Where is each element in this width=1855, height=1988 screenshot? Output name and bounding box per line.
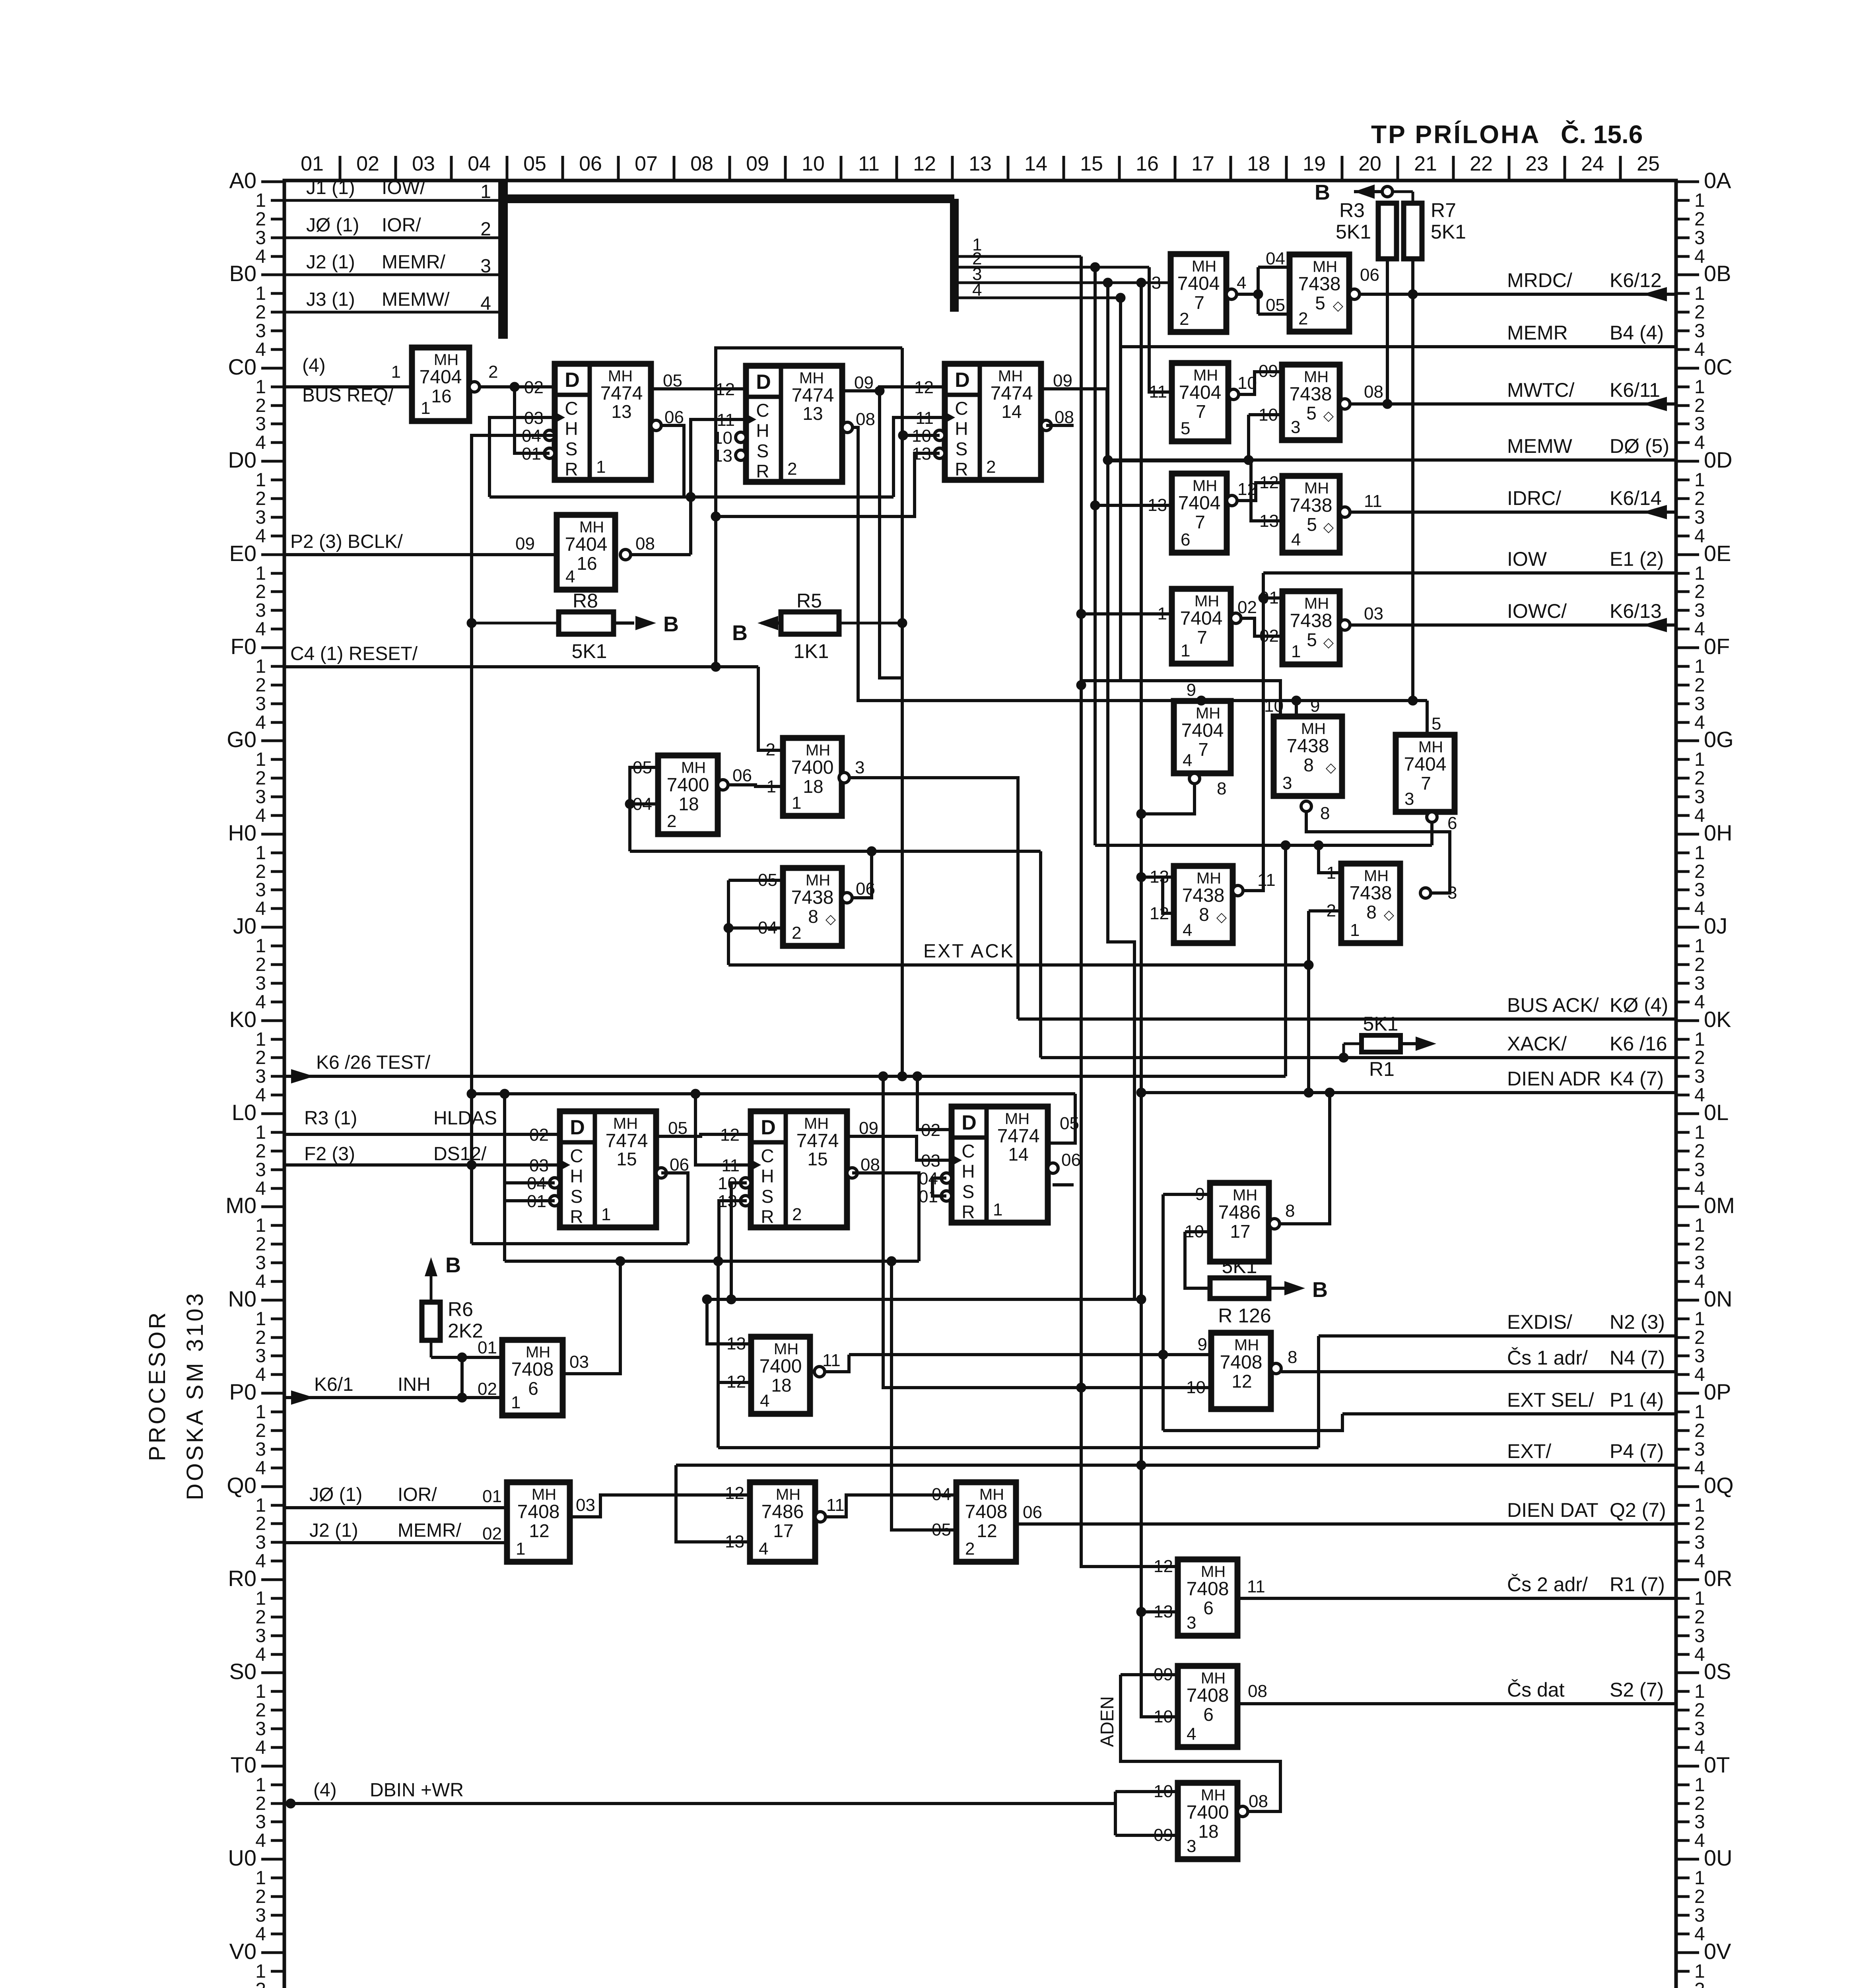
svg-text:17: 17 xyxy=(1191,152,1214,175)
svg-text:7: 7 xyxy=(1195,512,1205,532)
wire MWTC line xyxy=(1345,402,1676,406)
wire G22 pin12 stub xyxy=(718,1381,751,1384)
resistor R1 5K1 xyxy=(1344,1013,1436,1080)
junction at 3021,1762 xyxy=(1197,696,1206,705)
svg-text:18: 18 xyxy=(1198,1821,1218,1842)
svg-text:3: 3 xyxy=(255,414,266,435)
svg-text:1: 1 xyxy=(1694,470,1705,491)
svg-text:1: 1 xyxy=(1694,377,1705,398)
svg-text:02: 02 xyxy=(478,1379,497,1399)
svg-text:K0: K0 xyxy=(229,1007,257,1032)
svg-text:D: D xyxy=(756,371,771,394)
svg-text:N0: N0 xyxy=(228,1286,256,1311)
wire DS12 xyxy=(284,1163,560,1167)
svg-text:2: 2 xyxy=(766,740,775,759)
svg-text:05: 05 xyxy=(633,758,652,777)
wire H-row link xyxy=(1095,844,1432,847)
junction at 2870,711 xyxy=(1136,278,1146,287)
wire FF5 C feed xyxy=(695,1094,751,1165)
svg-text:7404: 7404 xyxy=(1180,608,1223,629)
svg-text:XACK/: XACK/ xyxy=(1507,1033,1567,1055)
wire MEMR line xyxy=(1121,345,1676,348)
junction at 2870,3685 xyxy=(1136,1460,1146,1470)
wire INH line xyxy=(284,1396,502,1399)
svg-text:3: 3 xyxy=(1404,789,1414,809)
output bubble at 3285,2028 xyxy=(1301,801,1311,812)
wire R3 lead xyxy=(1386,259,1389,404)
gate MH7438-5/2 xyxy=(1290,254,1349,332)
svg-text:15: 15 xyxy=(1080,152,1103,175)
svg-text:4: 4 xyxy=(1694,1085,1705,1106)
svg-text:18: 18 xyxy=(678,794,699,814)
svg-text:3: 3 xyxy=(480,256,491,277)
svg-text:◇: ◇ xyxy=(1216,910,1227,925)
svg-text:3: 3 xyxy=(1694,1159,1705,1180)
wire FF1 Q to FF2 D xyxy=(651,387,746,390)
svg-text:18: 18 xyxy=(1247,152,1270,175)
wire G6 out to G7 in xyxy=(1231,293,1258,296)
wire G8 out jog xyxy=(1233,372,1282,394)
wire G23 out jog xyxy=(570,1495,750,1517)
svg-text:2: 2 xyxy=(255,1979,266,1988)
wire G4 pin2 feed xyxy=(758,667,783,750)
svg-text:MH: MH xyxy=(1192,258,1216,275)
svg-text:20: 20 xyxy=(1358,152,1381,175)
svg-text:A0: A0 xyxy=(229,168,257,193)
svg-text:MH: MH xyxy=(1418,738,1443,756)
junction at 2221,2707 xyxy=(878,1072,888,1081)
svg-text:J2 (1): J2 (1) xyxy=(309,1520,358,1541)
junction at 2271,1095 xyxy=(898,431,908,440)
wire L-row top link xyxy=(472,1092,1075,1095)
svg-text:1: 1 xyxy=(596,457,606,477)
junction at 1186,1567 xyxy=(467,618,476,628)
svg-text:10: 10 xyxy=(1237,373,1257,393)
svg-text:R: R xyxy=(570,1206,583,1227)
svg-text:◇: ◇ xyxy=(1323,520,1334,535)
svg-text:◇: ◇ xyxy=(1323,408,1334,423)
svg-text:MH: MH xyxy=(799,369,824,387)
svg-text:03: 03 xyxy=(576,1495,595,1515)
svg-text:D: D xyxy=(761,1116,776,1139)
svg-text:4: 4 xyxy=(1694,1458,1705,1479)
svg-text:MH: MH xyxy=(1201,1670,1226,1687)
svg-text:4: 4 xyxy=(1694,432,1705,453)
svg-text:2: 2 xyxy=(792,923,801,943)
svg-text:MH: MH xyxy=(1313,258,1337,276)
junction at 3489,1016 xyxy=(1383,399,1392,409)
svg-text:M0: M0 xyxy=(225,1193,256,1218)
svg-text:5K1: 5K1 xyxy=(1431,221,1466,243)
svg-text:7400: 7400 xyxy=(667,775,709,796)
svg-text:MH: MH xyxy=(526,1343,550,1361)
wire EXT SEL jog xyxy=(1163,1414,1342,1431)
svg-text:3: 3 xyxy=(1694,1345,1705,1367)
svg-text:1: 1 xyxy=(421,398,430,418)
output bubble at 2123,1956 xyxy=(839,773,849,783)
wire G27-G28 link xyxy=(1121,1675,1280,1811)
svg-text:P0: P0 xyxy=(229,1379,257,1404)
junction at 1778,3268 xyxy=(702,1295,712,1304)
svg-text:1: 1 xyxy=(255,190,266,211)
junction at 1749,2751 xyxy=(691,1089,700,1099)
svg-text:HLDAS: HLDAS xyxy=(433,1108,497,1129)
svg-text:JØ (1): JØ (1) xyxy=(309,1484,362,1505)
svg-text:MRDC/: MRDC/ xyxy=(1507,269,1572,291)
wire IOW line xyxy=(1263,571,1676,575)
resistor R5 1K1 xyxy=(732,590,902,662)
svg-text:1: 1 xyxy=(1694,936,1705,957)
wire G24 out jog xyxy=(826,1495,956,1517)
output bubble at 2130,2258 xyxy=(842,893,852,903)
svg-text:2: 2 xyxy=(1694,581,1705,602)
svg-text:2: 2 xyxy=(255,581,266,602)
wire XACK upper link xyxy=(630,850,1041,853)
junction at 731,4536 xyxy=(286,1799,295,1808)
wire G27 pin09 feed xyxy=(1121,1673,1178,1676)
svg-text:2: 2 xyxy=(255,1047,266,1068)
svg-text:8: 8 xyxy=(808,906,818,927)
svg-text:D: D xyxy=(955,369,970,392)
svg-text:2: 2 xyxy=(1694,1141,1705,1162)
flip-flop MH7474-14/2 (FF3) xyxy=(912,364,1074,480)
svg-text:4: 4 xyxy=(255,526,266,547)
svg-text:V0: V0 xyxy=(229,1939,257,1964)
output bubble at 3205,3078 xyxy=(1269,1219,1280,1229)
svg-text:06: 06 xyxy=(856,879,875,899)
svg-text:C: C xyxy=(955,398,968,419)
svg-text:3: 3 xyxy=(1187,1613,1196,1633)
svg-text:3: 3 xyxy=(1291,417,1300,437)
wire branch2 riser IDRC xyxy=(1095,267,1172,505)
wire G3 out to G4 in xyxy=(723,785,783,786)
wire TEST riser mid xyxy=(1284,845,1287,1076)
svg-text:5: 5 xyxy=(1181,419,1190,438)
svg-text:4: 4 xyxy=(255,432,266,453)
svg-text:MH: MH xyxy=(998,367,1023,385)
svg-text:1: 1 xyxy=(391,362,401,382)
wire branch1 riser to R-gate xyxy=(1081,1388,1178,1567)
svg-text:5: 5 xyxy=(1315,293,1325,313)
svg-text:R: R xyxy=(955,459,968,480)
svg-text:05: 05 xyxy=(523,152,546,175)
arrow INH entry xyxy=(291,1390,314,1405)
svg-text:2: 2 xyxy=(1694,954,1705,975)
svg-text:4: 4 xyxy=(255,1271,266,1292)
svg-text:C: C xyxy=(761,1145,774,1166)
wire G19 pin9 riser xyxy=(1162,1194,1165,1431)
svg-text:G0: G0 xyxy=(227,727,256,752)
svg-text:06: 06 xyxy=(1023,1503,1042,1522)
svg-text:13: 13 xyxy=(1259,511,1279,531)
svg-text:3: 3 xyxy=(1694,1718,1705,1739)
junction at 1839,3268 xyxy=(726,1295,736,1304)
svg-text:7404: 7404 xyxy=(1181,720,1224,741)
wire BUS REQ input xyxy=(284,385,412,388)
junction at 1186,2751 xyxy=(467,1089,476,1099)
svg-text:K6/1: K6/1 xyxy=(314,1374,354,1395)
svg-text:MH: MH xyxy=(1005,1110,1029,1128)
wire clock distribution xyxy=(489,495,894,499)
svg-text:1: 1 xyxy=(255,936,266,957)
svg-text:4: 4 xyxy=(1694,1924,1705,1945)
svg-text:3: 3 xyxy=(255,1345,266,1367)
svg-text:1: 1 xyxy=(767,777,776,796)
wire BCLK out xyxy=(620,553,691,556)
svg-text:2: 2 xyxy=(1694,1700,1705,1721)
svg-text:S0: S0 xyxy=(229,1659,257,1684)
wire IOWC line xyxy=(1345,623,1676,627)
svg-text:MH: MH xyxy=(979,1486,1004,1503)
svg-text:3: 3 xyxy=(1694,320,1705,342)
svg-text:4: 4 xyxy=(255,712,266,733)
svg-text:10: 10 xyxy=(1154,1782,1173,1801)
svg-text:5K1: 5K1 xyxy=(572,640,607,662)
svg-text:08: 08 xyxy=(1364,382,1383,402)
wire clk to FF3 C xyxy=(894,417,945,497)
wire mid link 3172 xyxy=(505,1260,919,1263)
svg-text:4: 4 xyxy=(1694,619,1705,640)
wire G7 in tie xyxy=(1257,267,1260,314)
svg-text:MH: MH xyxy=(1196,705,1220,722)
svg-text:04: 04 xyxy=(758,918,777,938)
svg-text:5K1: 5K1 xyxy=(1336,221,1371,243)
svg-text:F0: F0 xyxy=(231,634,256,659)
svg-text:4: 4 xyxy=(255,1458,266,1479)
wire FF1 Qbar stub xyxy=(661,425,684,497)
svg-text:0K: 0K xyxy=(1704,1007,1731,1032)
junction at 2719,1723 xyxy=(1076,680,1086,690)
svg-text:3: 3 xyxy=(255,1439,266,1460)
gate MH7438-8/1 xyxy=(1341,864,1400,943)
svg-text:N2 (3): N2 (3) xyxy=(1610,1311,1665,1333)
svg-text:13: 13 xyxy=(1150,867,1169,887)
wire channel riser B xyxy=(1119,347,1122,681)
svg-text:4: 4 xyxy=(565,567,575,586)
svg-text:R7: R7 xyxy=(1431,199,1456,221)
svg-text:3: 3 xyxy=(855,758,864,777)
wire EXT ACK tie xyxy=(728,879,783,882)
output bubble at 3108,1555 xyxy=(1231,613,1241,623)
wire EXDIS line xyxy=(1319,1334,1676,1338)
wire FF4 S,R feed xyxy=(503,1094,506,1261)
svg-text:01: 01 xyxy=(478,1338,497,1357)
svg-text:2: 2 xyxy=(1694,768,1705,789)
svg-text:10: 10 xyxy=(1264,696,1284,716)
svg-text:MH: MH xyxy=(608,367,633,385)
svg-text:5: 5 xyxy=(1307,629,1317,650)
junction at 2269,1567 xyxy=(897,618,907,628)
svg-text:05: 05 xyxy=(932,1520,951,1540)
wire G9 pin10 feed xyxy=(1249,413,1282,416)
svg-text:4: 4 xyxy=(1237,273,1246,293)
svg-text:13: 13 xyxy=(802,403,823,424)
svg-text:4: 4 xyxy=(1694,1551,1705,1572)
svg-text:06: 06 xyxy=(732,766,752,785)
svg-text:11: 11 xyxy=(1247,1577,1265,1596)
svg-text:7: 7 xyxy=(1198,739,1208,760)
wire FF2 Q to FF3 D xyxy=(842,387,945,391)
svg-text:EXT ACK: EXT ACK xyxy=(923,941,1015,962)
svg-text:16: 16 xyxy=(577,553,597,574)
output bubble at 3585,2246 xyxy=(1420,888,1431,898)
svg-text:MH: MH xyxy=(681,759,706,777)
svg-text:0Q: 0Q xyxy=(1704,1473,1734,1498)
junction at 3260,1762 xyxy=(1292,696,1301,705)
bus trunk (thick) xyxy=(499,181,954,339)
svg-text:2: 2 xyxy=(1298,309,1308,328)
svg-text:3: 3 xyxy=(255,1811,266,1833)
wire G19 pin9 xyxy=(1163,1193,1210,1196)
bus branch 3 xyxy=(954,282,1171,284)
svg-text:12: 12 xyxy=(529,1520,549,1541)
svg-text:IOR/: IOR/ xyxy=(382,215,421,236)
svg-text:4: 4 xyxy=(255,1737,266,1758)
svg-text:1: 1 xyxy=(255,377,266,398)
svg-text:13: 13 xyxy=(969,152,992,175)
svg-text:4: 4 xyxy=(1694,1830,1705,1851)
svg-text:IOWC/: IOWC/ xyxy=(1507,600,1567,622)
svg-text:1: 1 xyxy=(1181,641,1190,660)
svg-text:S: S xyxy=(571,1186,583,1207)
input row J1 IOW/ xyxy=(284,199,498,202)
svg-text:C: C xyxy=(756,400,769,421)
wire FF3 S feed xyxy=(902,434,940,437)
wire FF4 pin01 stub xyxy=(505,1199,555,1202)
wire FF4 Qbar down xyxy=(661,1173,688,1244)
svg-text:10: 10 xyxy=(1154,1707,1173,1726)
svg-text:6: 6 xyxy=(1203,1598,1214,1618)
svg-text:R: R xyxy=(565,459,578,480)
svg-text:06: 06 xyxy=(1061,1150,1081,1170)
wire branch4 riser MEMR xyxy=(1119,298,1122,347)
svg-text:7400: 7400 xyxy=(759,1356,802,1377)
wire G17 pins tie xyxy=(1141,876,1174,879)
bus branch 2 xyxy=(954,266,1149,269)
svg-text:8: 8 xyxy=(1285,1201,1295,1221)
svg-text:2: 2 xyxy=(787,459,797,479)
svg-text:L0: L0 xyxy=(232,1100,256,1125)
svg-text:02: 02 xyxy=(482,1524,502,1543)
frame border xyxy=(284,181,1676,1988)
svg-text:3: 3 xyxy=(255,1532,266,1553)
svg-text:7438: 7438 xyxy=(1287,736,1329,757)
svg-text:R6: R6 xyxy=(448,1298,473,1320)
junction at 1737,1250 xyxy=(686,492,695,502)
wire G17 pins tie2 xyxy=(1163,877,1174,913)
svg-text:9: 9 xyxy=(1198,1335,1207,1354)
flip-flop MH7474-15/2 (FF5) xyxy=(718,1111,880,1227)
output bubble at 3097,740 xyxy=(1226,289,1237,299)
svg-text:1: 1 xyxy=(993,1200,1002,1219)
net B pullup top xyxy=(1315,181,1413,204)
svg-text:H: H xyxy=(955,418,968,439)
svg-text:H: H xyxy=(961,1161,975,1182)
gate MH7400-18/3 xyxy=(1178,1783,1237,1859)
svg-text:MH: MH xyxy=(579,518,604,536)
svg-text:19: 19 xyxy=(1303,152,1326,175)
svg-text:S: S xyxy=(565,439,578,459)
wire FF4 pin04 stub xyxy=(505,1181,555,1184)
junction at 2719,1544 xyxy=(1076,609,1086,619)
svg-text:◇: ◇ xyxy=(1333,298,1344,313)
svg-text:3: 3 xyxy=(1694,1439,1705,1460)
wire FF6 Qbar stub xyxy=(1053,1183,1074,1186)
output bubble at 3102,992 xyxy=(1228,389,1239,400)
svg-text:3: 3 xyxy=(1694,507,1705,528)
wire TEST line xyxy=(284,1075,1286,1078)
svg-text:2: 2 xyxy=(255,768,266,789)
svg-text:3: 3 xyxy=(255,1252,266,1274)
wire FF1 pin04 feed xyxy=(472,435,555,1244)
wire CS2ADR line xyxy=(1237,1597,1676,1600)
svg-text:2: 2 xyxy=(480,219,491,240)
svg-text:S2 (7): S2 (7) xyxy=(1610,1679,1664,1701)
svg-text:05: 05 xyxy=(1266,295,1285,315)
svg-text:04: 04 xyxy=(633,794,652,814)
gate MH7486-17 xyxy=(1210,1183,1269,1262)
svg-text:1: 1 xyxy=(1694,1868,1705,1889)
svg-text:MH: MH xyxy=(1193,367,1218,384)
junction at 3553,1762 xyxy=(1408,696,1418,705)
svg-text:1: 1 xyxy=(516,1539,525,1559)
wire branch2 riser MWTC xyxy=(1149,267,1172,392)
svg-text:1: 1 xyxy=(255,656,266,677)
svg-text:B: B xyxy=(663,612,679,636)
gate MH7486-17/4 xyxy=(750,1482,815,1562)
gate MH7400-18/1 xyxy=(783,738,842,816)
svg-text:1: 1 xyxy=(1694,656,1705,677)
svg-text:17: 17 xyxy=(1230,1221,1250,1242)
svg-text:4: 4 xyxy=(255,1178,266,1199)
input row J3 MEMW/ xyxy=(284,311,498,314)
svg-text:◇: ◇ xyxy=(1326,760,1336,775)
svg-text:02: 02 xyxy=(356,152,379,175)
svg-text:3: 3 xyxy=(255,600,266,621)
svg-text:2: 2 xyxy=(965,1539,975,1559)
wire DIEN ADR riser xyxy=(1307,911,1310,1093)
svg-text:7404: 7404 xyxy=(565,534,608,555)
svg-text:4: 4 xyxy=(1694,992,1705,1013)
svg-text:4: 4 xyxy=(255,992,266,1013)
svg-text:2: 2 xyxy=(488,362,498,382)
output bubble at 1573,1395 xyxy=(620,549,631,560)
svg-text:MH: MH xyxy=(1195,592,1219,610)
junction at 2719,3490 xyxy=(1076,1383,1086,1392)
svg-text:3: 3 xyxy=(255,786,266,808)
svg-text:1: 1 xyxy=(1158,604,1167,623)
svg-text:MWTC/: MWTC/ xyxy=(1507,379,1574,401)
svg-text:1: 1 xyxy=(255,283,266,304)
svg-text:S: S xyxy=(761,1186,774,1207)
svg-text:08: 08 xyxy=(635,534,655,553)
svg-text:MH: MH xyxy=(774,1340,798,1358)
flip-flop MH7474-14/1 (FF6) xyxy=(919,1107,1081,1223)
output bubble at 3406,740 xyxy=(1349,289,1360,299)
svg-text:10: 10 xyxy=(1259,405,1278,425)
row scale right xyxy=(1676,181,1699,183)
wire G18 pin1 feed xyxy=(1319,845,1341,873)
svg-text:2: 2 xyxy=(255,1607,266,1628)
svg-text:7438: 7438 xyxy=(1298,274,1341,295)
wire G7 pin05 xyxy=(1258,313,1290,316)
svg-text:7404: 7404 xyxy=(420,367,462,388)
svg-text:02: 02 xyxy=(1237,598,1257,617)
svg-text:07: 07 xyxy=(635,152,658,175)
svg-text:8: 8 xyxy=(1303,755,1314,775)
svg-text:4: 4 xyxy=(480,293,491,314)
svg-text:0S: 0S xyxy=(1704,1659,1731,1684)
